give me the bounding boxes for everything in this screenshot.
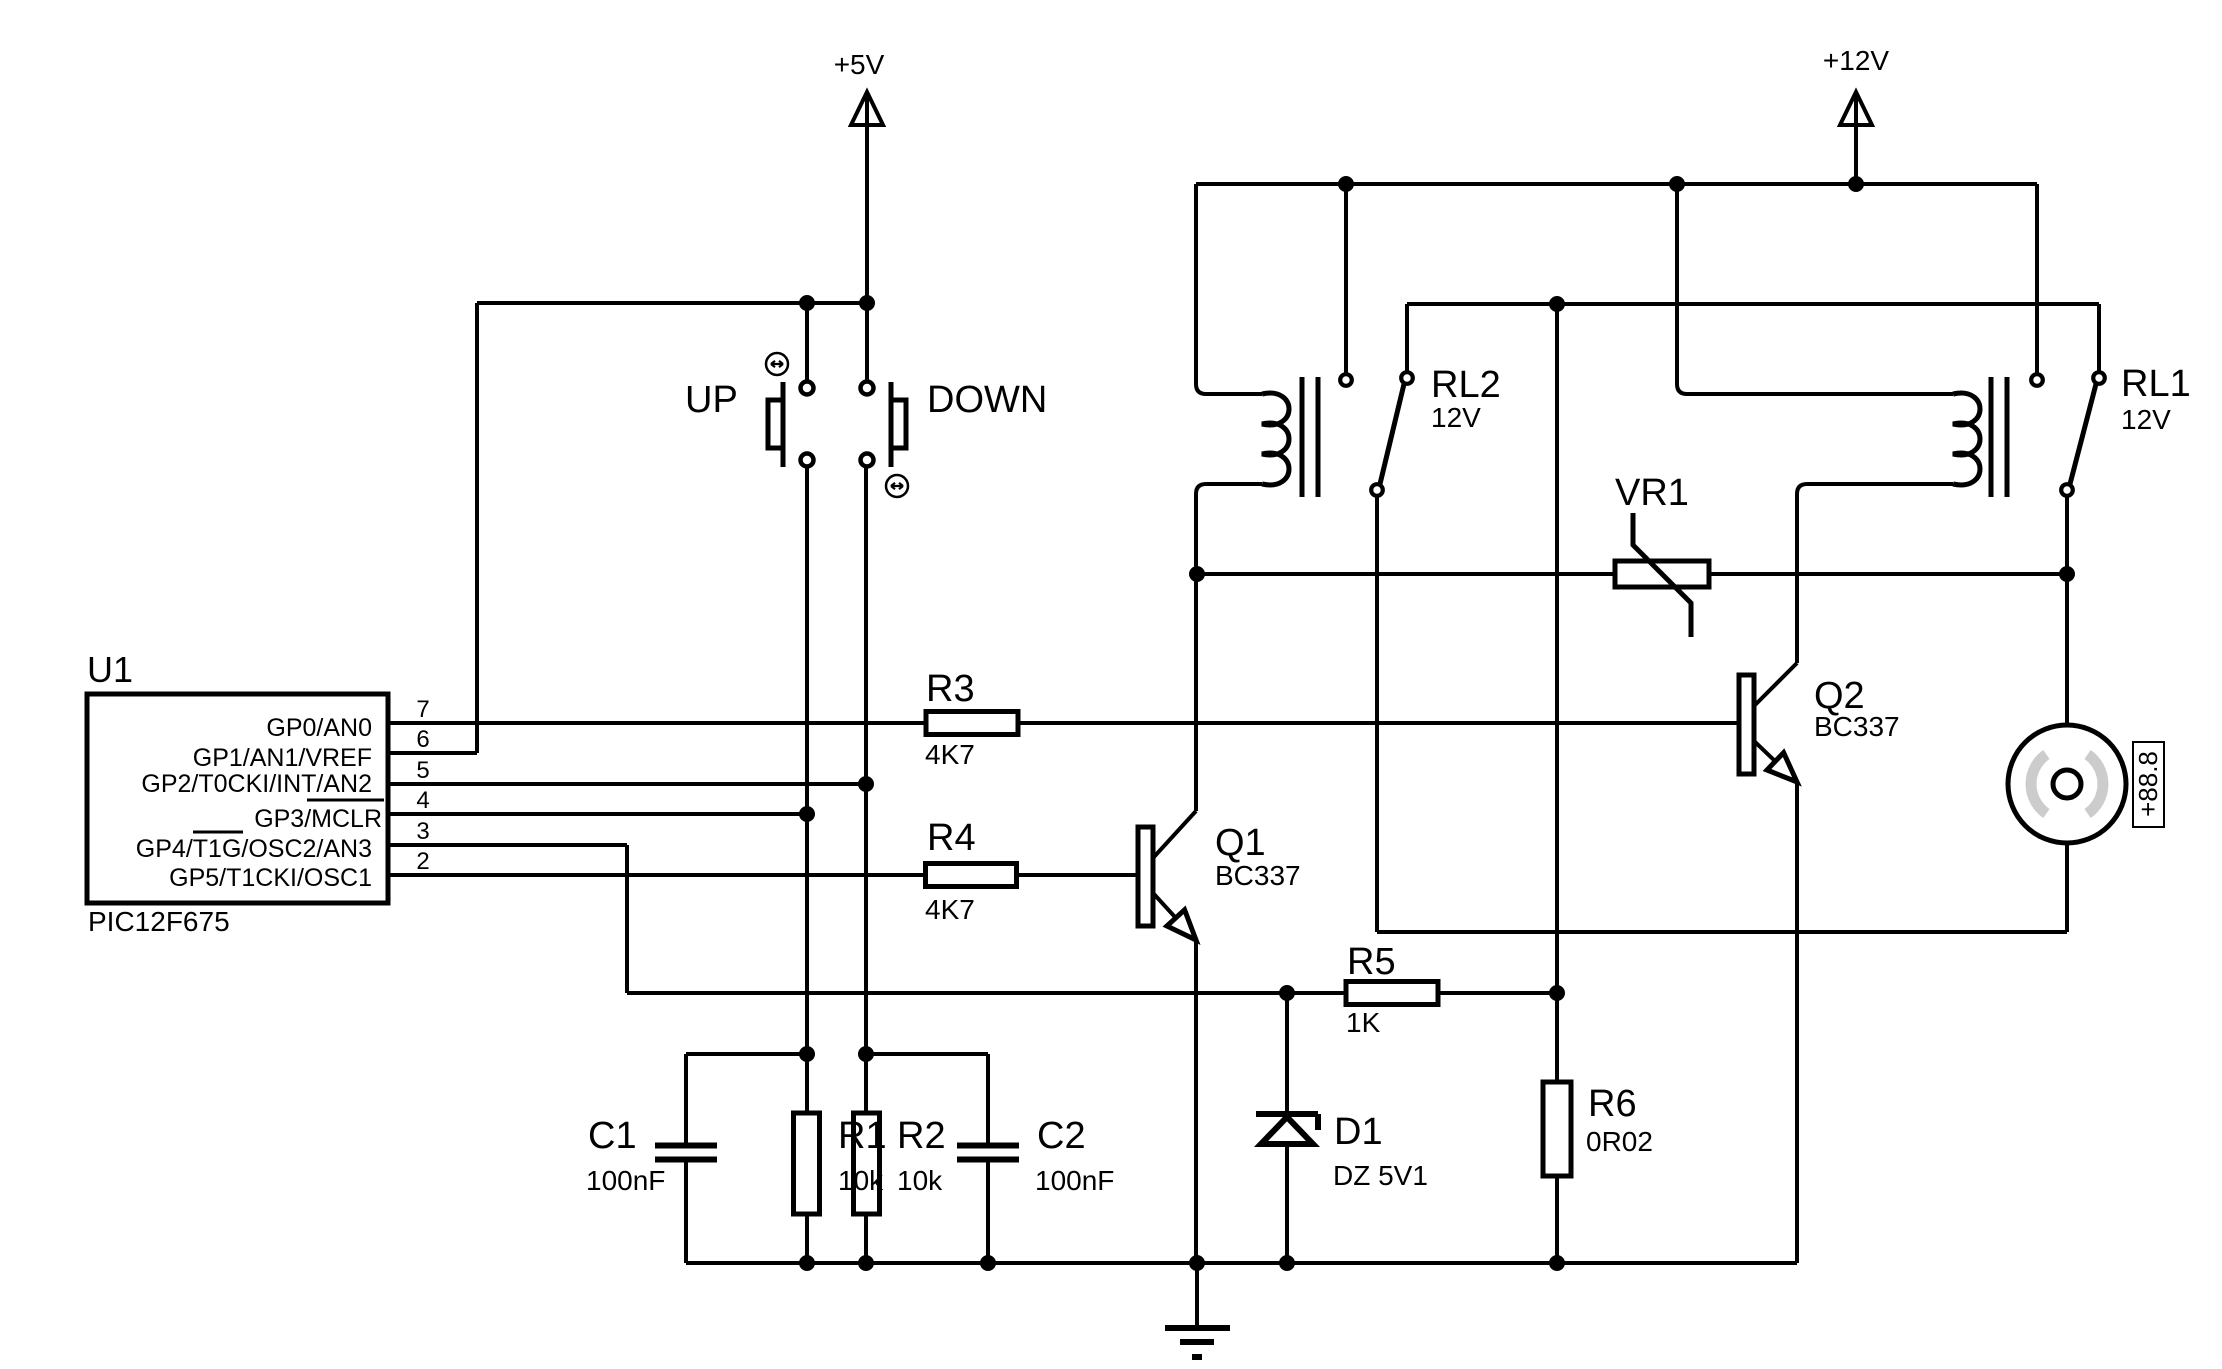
svg-text:R2: R2 xyxy=(897,1115,946,1157)
svg-text:Q1: Q1 xyxy=(1215,822,1266,864)
svg-text:+88.8: +88.8 xyxy=(2133,751,2163,817)
svg-text:RL1: RL1 xyxy=(2121,363,2191,405)
svg-text:PIC12F675: PIC12F675 xyxy=(88,906,230,937)
svg-text:100nF: 100nF xyxy=(586,1165,665,1196)
svg-text:D1: D1 xyxy=(1334,1111,1383,1153)
svg-text:R4: R4 xyxy=(927,817,976,859)
svg-text:UP: UP xyxy=(685,379,738,421)
svg-text:100nF: 100nF xyxy=(1035,1165,1114,1196)
svg-text:0R02: 0R02 xyxy=(1586,1126,1653,1157)
svg-text:GP5/T1CKI/OSC1: GP5/T1CKI/OSC1 xyxy=(169,864,372,892)
svg-text:4K7: 4K7 xyxy=(925,894,975,925)
svg-text:3: 3 xyxy=(416,818,429,845)
svg-text:BC337: BC337 xyxy=(1814,711,1900,742)
svg-text:R3: R3 xyxy=(926,668,975,710)
svg-text:VR1: VR1 xyxy=(1615,472,1689,514)
svg-text:RL2: RL2 xyxy=(1431,364,1501,406)
svg-text:DZ 5V1: DZ 5V1 xyxy=(1333,1160,1428,1191)
svg-text:U1: U1 xyxy=(87,649,133,690)
svg-text:R6: R6 xyxy=(1588,1083,1637,1125)
svg-text:7: 7 xyxy=(416,696,429,723)
svg-text:12V: 12V xyxy=(2121,404,2171,435)
svg-text:4: 4 xyxy=(416,787,429,814)
svg-text:2: 2 xyxy=(416,848,429,875)
svg-text:R5: R5 xyxy=(1347,941,1396,983)
svg-text:+12V: +12V xyxy=(1823,45,1889,76)
svg-text:R1: R1 xyxy=(838,1115,887,1157)
svg-text:12V: 12V xyxy=(1431,402,1481,433)
svg-text:10k: 10k xyxy=(897,1165,943,1196)
svg-text:GP0/AN0: GP0/AN0 xyxy=(266,714,372,742)
svg-text:4K7: 4K7 xyxy=(925,739,975,770)
svg-text:C1: C1 xyxy=(588,1115,637,1157)
svg-text:1K: 1K xyxy=(1346,1007,1381,1038)
svg-text:GP1/AN1/VREF: GP1/AN1/VREF xyxy=(193,744,372,772)
svg-text:GP4/T1G/OSC2/AN3: GP4/T1G/OSC2/AN3 xyxy=(136,835,372,863)
svg-text:10k: 10k xyxy=(838,1165,884,1196)
svg-text:GP3/MCLR: GP3/MCLR xyxy=(254,805,382,833)
svg-text:GP2/T0CKI/INT/AN2: GP2/T0CKI/INT/AN2 xyxy=(141,770,372,798)
svg-text:DOWN: DOWN xyxy=(927,379,1047,421)
svg-text:C2: C2 xyxy=(1037,1115,1086,1157)
svg-text:5: 5 xyxy=(416,757,429,784)
svg-text:+5V: +5V xyxy=(834,49,885,80)
svg-text:6: 6 xyxy=(416,726,429,753)
svg-text:BC337: BC337 xyxy=(1215,860,1301,891)
